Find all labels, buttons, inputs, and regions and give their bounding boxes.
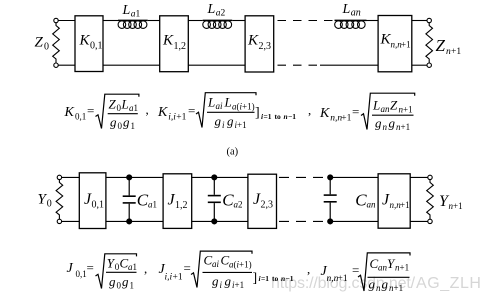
wire xyxy=(367,20,379,22)
impedance inverter Kn,n+1 xyxy=(378,16,412,72)
svg-text:AG_ZLH: AG_ZLH xyxy=(416,275,482,292)
svg-text:n: n xyxy=(376,283,381,293)
svg-text:(a): (a) xyxy=(227,147,239,158)
svg-text:g: g xyxy=(375,116,382,131)
svg-text:1: 1 xyxy=(136,9,141,19)
junction bottom Ca1 xyxy=(127,219,132,224)
svg-text:+1): +1) xyxy=(242,102,255,112)
formula J01 xyxy=(67,254,148,291)
svg-text:ai: ai xyxy=(216,101,224,111)
formula Ji,i+1 xyxy=(159,251,294,290)
svg-text:L: L xyxy=(342,2,351,17)
wire xyxy=(412,64,427,66)
label Ca2 xyxy=(222,191,242,210)
svg-text:L: L xyxy=(121,97,129,112)
capacitor Can xyxy=(324,177,337,221)
wire xyxy=(106,176,163,178)
junction top Can xyxy=(328,175,333,180)
inductor Lan xyxy=(335,20,367,28)
node load terminal top (circuit b) xyxy=(428,175,432,179)
admittance inverter Jn,n+1 xyxy=(378,174,410,228)
svg-text:+1: +1 xyxy=(453,201,463,211)
svg-text:K: K xyxy=(79,33,91,49)
svg-text:=: = xyxy=(87,103,94,118)
svg-text:]: ] xyxy=(253,271,258,286)
svg-text:+1: +1 xyxy=(237,120,247,130)
svg-text:to: to xyxy=(272,274,278,283)
svg-text:,: , xyxy=(146,102,149,117)
svg-text:+1: +1 xyxy=(341,114,351,124)
svg-text:L: L xyxy=(372,98,380,113)
svg-text:L: L xyxy=(207,2,216,17)
node source terminal bottom (circuit a) xyxy=(54,63,58,67)
svg-text:g: g xyxy=(122,274,129,289)
svg-text:an: an xyxy=(367,200,377,210)
svg-text:−1: −1 xyxy=(288,112,296,121)
svg-text:C: C xyxy=(222,191,234,210)
svg-text:=1: =1 xyxy=(264,112,272,121)
svg-text:0,1: 0,1 xyxy=(75,112,86,122)
svg-text:an: an xyxy=(351,7,361,18)
label Zn+1 xyxy=(436,36,462,57)
wire xyxy=(410,220,428,222)
admittance inverter J23 xyxy=(248,174,277,228)
formula Kn,n+1 xyxy=(308,93,415,132)
node load terminal bottom (circuit a) xyxy=(427,63,431,67)
wire xyxy=(330,220,378,222)
svg-text:=: = xyxy=(87,260,94,275)
wire xyxy=(106,220,163,222)
label Yn+1 xyxy=(439,193,463,211)
label K12 xyxy=(162,33,186,53)
svg-text:L: L xyxy=(224,95,232,110)
formula K01 xyxy=(64,94,149,131)
resistor Zn+1 xyxy=(426,23,433,63)
svg-text:+1: +1 xyxy=(173,273,183,283)
svg-text:=: = xyxy=(184,261,191,276)
wire dashed xyxy=(278,64,318,66)
svg-text:+1): +1) xyxy=(239,260,252,270)
wire dashed xyxy=(279,220,327,222)
svg-text:1: 1 xyxy=(153,200,158,210)
svg-text:g: g xyxy=(382,277,389,292)
wire xyxy=(58,64,75,66)
label K23 xyxy=(247,33,271,53)
svg-text:g: g xyxy=(109,274,116,289)
impedance inverter K23 xyxy=(245,16,274,72)
svg-text:=: = xyxy=(352,104,359,119)
svg-text:Z: Z xyxy=(35,35,44,51)
label K01 xyxy=(79,33,103,52)
svg-text:0: 0 xyxy=(44,42,49,53)
svg-text:+1: +1 xyxy=(176,113,186,123)
svg-text:g: g xyxy=(215,114,222,129)
node source terminal bottom (circuit b) xyxy=(57,219,61,223)
svg-text:0,1: 0,1 xyxy=(90,41,103,52)
label Can xyxy=(355,191,376,210)
svg-text:1: 1 xyxy=(130,281,135,291)
svg-text:g: g xyxy=(389,116,396,131)
svg-text:1,2: 1,2 xyxy=(174,41,187,52)
admittance inverter J12 xyxy=(163,174,192,229)
svg-text:2: 2 xyxy=(221,9,226,19)
svg-text:g: g xyxy=(225,274,232,289)
svg-text:an: an xyxy=(381,104,391,114)
label J23 xyxy=(253,191,273,211)
wire xyxy=(320,64,378,66)
label La2 xyxy=(207,2,226,19)
svg-text:K: K xyxy=(247,33,259,49)
label Z0 xyxy=(35,35,50,53)
svg-text:g: g xyxy=(110,115,117,130)
svg-text:C: C xyxy=(355,191,367,210)
svg-text:2,3: 2,3 xyxy=(259,41,272,52)
svg-text:to: to xyxy=(275,112,281,121)
node source terminal top (circuit b) xyxy=(57,175,61,179)
junction bottom Ca2 xyxy=(212,219,217,224)
svg-text:1: 1 xyxy=(133,262,138,272)
label La1 xyxy=(122,3,141,20)
wire xyxy=(232,20,245,22)
svg-text:0: 0 xyxy=(117,281,122,291)
wire xyxy=(62,176,80,178)
wire xyxy=(192,220,248,222)
svg-text:+1: +1 xyxy=(338,274,348,284)
wire xyxy=(188,20,202,22)
label J01 xyxy=(84,191,104,211)
junction bottom Can xyxy=(328,219,333,224)
svg-text:0: 0 xyxy=(47,199,52,210)
svg-text:g: g xyxy=(212,274,219,289)
resistor Z0 xyxy=(53,23,60,63)
svg-text:=1: =1 xyxy=(261,274,269,283)
svg-text:]: ] xyxy=(255,106,260,121)
inductor La1 xyxy=(118,20,148,28)
label Lan xyxy=(342,2,361,19)
svg-text:2,3: 2,3 xyxy=(261,200,274,211)
svg-text:+1: +1 xyxy=(400,200,410,210)
svg-text:g: g xyxy=(123,115,130,130)
svg-text:g: g xyxy=(369,277,376,292)
svg-text:i,i: i,i xyxy=(168,113,176,123)
svg-text:i,i: i,i xyxy=(165,273,173,283)
svg-text:=: = xyxy=(352,263,359,278)
svg-text:=: = xyxy=(188,103,195,118)
wire dashed xyxy=(278,20,335,22)
node load terminal top (circuit a) xyxy=(427,18,431,22)
wire dashed xyxy=(279,176,327,178)
capacitor Ca2 xyxy=(208,177,221,221)
svg-text:+1: +1 xyxy=(400,263,410,273)
svg-text:0,1: 0,1 xyxy=(92,200,105,211)
wire xyxy=(58,20,75,22)
label Jn,n+1 xyxy=(382,192,410,211)
svg-text:Z: Z xyxy=(436,36,446,55)
admittance inverter J01 xyxy=(79,173,106,229)
label J12 xyxy=(168,192,188,212)
svg-text:Z: Z xyxy=(109,97,117,112)
junction top Ca1 xyxy=(127,175,132,180)
resistor Yn+1 xyxy=(427,180,434,220)
svg-text:0,1: 0,1 xyxy=(76,269,87,279)
formula Jn,n+1 xyxy=(307,253,410,293)
junction top Ca2 xyxy=(212,175,217,180)
svg-text:1: 1 xyxy=(134,103,139,113)
svg-text:g: g xyxy=(227,114,234,129)
wire xyxy=(412,20,427,22)
svg-text:K: K xyxy=(157,105,168,120)
svg-text:C: C xyxy=(137,191,149,210)
wire xyxy=(330,176,378,178)
svg-text:n: n xyxy=(383,122,388,132)
svg-text:K: K xyxy=(162,33,174,49)
label Y0 xyxy=(38,192,52,210)
node load terminal bottom (circuit b) xyxy=(428,219,432,223)
wire xyxy=(62,220,80,222)
svg-text:,: , xyxy=(308,103,311,118)
svg-text:1,2: 1,2 xyxy=(175,200,188,211)
label Ca1 xyxy=(137,191,157,210)
svg-text:L: L xyxy=(122,3,131,18)
svg-text:L: L xyxy=(207,95,215,110)
node source terminal top (circuit a) xyxy=(54,18,58,22)
impedance inverter K01 xyxy=(75,16,103,72)
wire xyxy=(188,64,245,66)
wire xyxy=(192,176,248,178)
svg-text:,: , xyxy=(307,262,310,277)
wire xyxy=(103,20,118,22)
svg-text:,: , xyxy=(144,261,147,276)
svg-text:ai: ai xyxy=(212,259,220,269)
svg-text:+1: +1 xyxy=(403,105,413,115)
svg-text:K: K xyxy=(64,105,75,120)
wire xyxy=(148,20,160,22)
label Kn,n+1 xyxy=(380,32,411,50)
svg-text:+1: +1 xyxy=(401,40,411,50)
wire xyxy=(410,176,428,178)
svg-text:K: K xyxy=(319,106,330,121)
formula Ki,i+1 xyxy=(157,93,296,130)
svg-text:J: J xyxy=(67,261,74,276)
svg-text:2: 2 xyxy=(238,200,243,210)
svg-text:+1: +1 xyxy=(451,47,461,57)
inductor La2 xyxy=(203,20,233,28)
resistor Y0 xyxy=(56,180,63,220)
capacitor Ca1 xyxy=(123,177,136,221)
svg-text:0: 0 xyxy=(118,121,123,131)
svg-text:+1: +1 xyxy=(235,280,245,290)
svg-text:Z: Z xyxy=(390,98,398,113)
svg-text:+1: +1 xyxy=(394,283,404,293)
svg-text:1: 1 xyxy=(131,121,136,131)
svg-text:+1: +1 xyxy=(401,122,411,132)
impedance inverter K12 xyxy=(160,16,189,72)
wire xyxy=(103,64,160,66)
svg-text:−1: −1 xyxy=(286,274,294,283)
